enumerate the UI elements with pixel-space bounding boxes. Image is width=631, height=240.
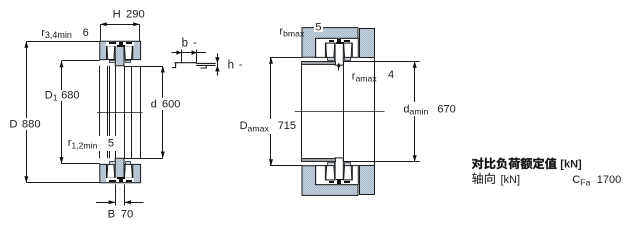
- label D 880 halo: [8, 118, 42, 130]
- label d 600 halo: [148, 98, 182, 110]
- svg-text:70: 70: [121, 209, 133, 221]
- d bottom leader: [124, 158, 163, 160]
- left bearing cross-section bottom half: [100, 158, 141, 183]
- svg-text:b: b: [182, 38, 188, 50]
- r_a fillet arrow: [337, 63, 340, 71]
- svg-text:715: 715: [278, 120, 296, 132]
- b dimension arrows: [172, 51, 207, 55]
- svg-text:290: 290: [126, 9, 145, 21]
- svg-text:1700: 1700: [597, 174, 621, 186]
- label r bmax 5: [279, 22, 323, 39]
- svg-text:670: 670: [437, 104, 455, 116]
- svg-text:4: 4: [388, 69, 394, 81]
- right figure centerline: [295, 111, 385, 113]
- label Damax 715: [240, 120, 296, 133]
- dimension H 290 line: [100, 22, 140, 26]
- label D1 680: [45, 90, 80, 103]
- dimension B 70 arrows: [96, 200, 144, 204]
- label d 600: [151, 99, 181, 111]
- dimension H 290 extension lines: [101, 24, 140, 41]
- svg-text:[kN]: [kN]: [560, 158, 582, 170]
- svg-text:-: -: [193, 37, 197, 49]
- dimension Da max leaders: [270, 58, 302, 166]
- svg-text:d: d: [151, 99, 157, 111]
- label b: [182, 37, 198, 50]
- svg-text:D: D: [9, 119, 17, 131]
- svg-text:[kN]: [kN]: [501, 174, 521, 186]
- dimension d 600 line: [161, 66, 165, 158]
- label H 290: [113, 9, 145, 21]
- right figure face lines: [302, 58, 375, 166]
- r3,4 leader / D top leader: [26, 41, 99, 43]
- label r 1,2min 5: [68, 137, 114, 150]
- dimension da min line: [413, 61, 417, 161]
- dimension B 70 extension lines: [116, 185, 125, 206]
- label D 880: [9, 119, 40, 131]
- label damin 670: [403, 104, 455, 117]
- D bottom leader: [26, 182, 99, 184]
- svg-text:h: h: [228, 59, 234, 71]
- left bearing face lines between halves: [100, 66, 141, 158]
- h dimension line: [215, 54, 219, 76]
- svg-text:680: 680: [61, 90, 79, 102]
- svg-text:600: 600: [162, 99, 180, 111]
- b extension lines: [182, 50, 197, 64]
- svg-text:880: 880: [22, 119, 41, 131]
- left bearing cross-section top half: [100, 41, 141, 66]
- svg-text:6: 6: [83, 27, 89, 39]
- right figure housing + bearing top half: [302, 28, 420, 66]
- left bearing centerline: [97, 112, 143, 114]
- svg-text:5: 5: [108, 138, 114, 150]
- value C Fa 1700: [572, 174, 621, 187]
- label B 70: [108, 209, 134, 221]
- label h: [228, 59, 243, 72]
- label r 3,4min 6: [41, 27, 89, 40]
- label damin 670 halo: [402, 102, 458, 116]
- dimension Da max line: [269, 57, 273, 166]
- D1 bottom leader: [62, 163, 100, 165]
- dimension D 880 line: [24, 41, 28, 182]
- d top leader: [124, 66, 163, 68]
- sleeve profile right part: [196, 63, 216, 68]
- right figure housing + bearing bottom half: [302, 158, 420, 196]
- D1 top leader: [62, 60, 100, 62]
- label r amax 4: [352, 69, 394, 84]
- heading Chinese: comparative load ratings [kN]: [472, 158, 582, 171]
- svg-text:B: B: [108, 209, 115, 221]
- row label Chinese: axial [kN]: [472, 173, 520, 187]
- svg-text:5: 5: [315, 22, 321, 34]
- svg-text:H: H: [113, 9, 121, 21]
- svg-text:-: -: [239, 59, 243, 71]
- dimension D1 680 line: [60, 61, 64, 164]
- label Damax 715 halo: [237, 119, 299, 134]
- label D1 680 halo: [44, 90, 82, 101]
- text halo for r12min and 5: [64, 136, 118, 151]
- sleeve profile left part: [172, 63, 197, 68]
